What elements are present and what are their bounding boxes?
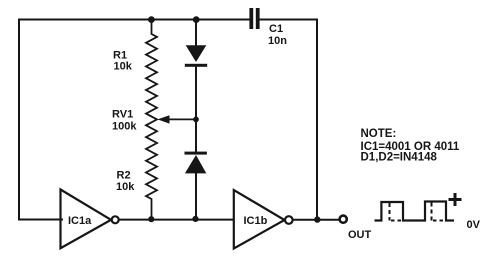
wire IC1b output to OUT terminal xyxy=(293,219,339,221)
svg-text:0V: 0V xyxy=(467,219,481,231)
waveform dashed alternate edge pulse2 xyxy=(431,203,433,221)
waveform dashed alternate edge pulse1 xyxy=(389,203,391,221)
IC1a output bubble xyxy=(112,216,119,223)
svg-text:100k: 100k xyxy=(112,121,137,133)
node junction wiper-diode mid xyxy=(193,117,199,123)
waveform dashed low pulse2 xyxy=(433,220,445,222)
svg-text:RV1: RV1 xyxy=(112,109,133,121)
OUT terminal circle xyxy=(340,216,347,223)
svg-text:NOTE:: NOTE: xyxy=(361,128,397,140)
resistor chain R1 RV1 R2 (zigzag) xyxy=(146,20,157,220)
op-amp inverter IC1a xyxy=(61,190,112,249)
svg-text:IC1a: IC1a xyxy=(68,215,92,227)
svg-text:R2: R2 xyxy=(117,170,131,182)
wire bottom left to IC1a input xyxy=(19,219,62,221)
wire right vertical xyxy=(316,20,318,220)
wire IC1a output to IC1b input xyxy=(119,219,234,221)
waveform dashed low pulse1 xyxy=(391,220,402,222)
op-amp inverter IC1b xyxy=(234,190,285,249)
wire left vertical xyxy=(18,20,20,220)
svg-text:D1,D2=IN4148: D1,D2=IN4148 xyxy=(361,152,438,164)
node junction bottom diode xyxy=(192,216,198,222)
svg-text:OUT: OUT xyxy=(348,229,372,241)
svg-text:10n: 10n xyxy=(268,35,287,47)
svg-text:10k: 10k xyxy=(114,61,133,73)
IC1b output bubble xyxy=(285,216,293,224)
node junction top resistor xyxy=(148,16,155,23)
wire top horizontal right of C1 xyxy=(261,19,318,21)
diode D1 xyxy=(185,45,207,67)
svg-text:IC1b: IC1b xyxy=(244,215,268,227)
node junction output to C1 branch xyxy=(314,216,320,222)
wire top horizontal left of C1 xyxy=(19,19,249,21)
RV1 wiper arrow xyxy=(158,115,197,123)
diode D2 xyxy=(185,152,207,174)
waveform OUT square wave solid xyxy=(375,202,455,221)
wire diode column leads xyxy=(195,20,197,220)
node junction top diode xyxy=(193,16,200,23)
capacitor C1 xyxy=(249,8,259,29)
plus sign xyxy=(449,193,462,206)
svg-text:10k: 10k xyxy=(116,181,135,193)
svg-text:C1: C1 xyxy=(269,23,283,35)
node junction bottom resistor xyxy=(148,216,154,222)
